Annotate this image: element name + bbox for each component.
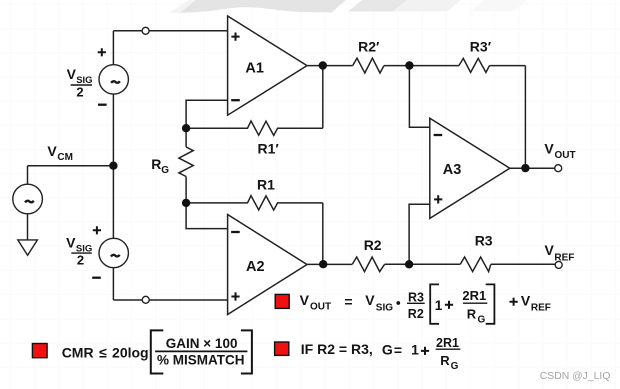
label VREF — [545, 242, 575, 263]
svg-text:2: 2 — [77, 253, 84, 268]
resistor R1' — [186, 121, 323, 135]
svg-text:2R1: 2R1 — [462, 288, 486, 303]
svg-text:CSDN @J_LIQ: CSDN @J_LIQ — [540, 371, 611, 382]
wire A3 minus input branch — [409, 66, 429, 128]
svg-text:V: V — [47, 143, 57, 159]
svg-text:V: V — [365, 292, 375, 308]
svg-text:REF: REF — [531, 303, 551, 314]
resistor R3 — [460, 257, 491, 272]
resistor R1 — [186, 196, 323, 210]
svg-text:A3: A3 — [443, 162, 462, 178]
svg-text:V: V — [67, 66, 77, 82]
wire VCM source top lead — [27, 166, 29, 185]
svg-text:CMR ≤ 20log: CMR ≤ 20log — [62, 345, 149, 361]
svg-text:IF R2 = R3,: IF R2 = R3, — [301, 341, 373, 357]
svg-text:G: G — [451, 361, 459, 372]
red marker square equation CMR — [32, 344, 47, 358]
wire source1 bottom to source2 top — [112, 94, 114, 238]
junction node A2 output — [319, 260, 327, 268]
wire A1 output to R2' — [307, 65, 353, 67]
junction node top mid — [405, 61, 413, 69]
svg-text:R2: R2 — [408, 307, 424, 321]
svg-text:1: 1 — [411, 342, 419, 358]
svg-text:R2′: R2′ — [358, 38, 380, 54]
wire R1' right leg up to A1 output — [322, 66, 324, 129]
svg-text:R: R — [467, 306, 477, 321]
open terminal VREF — [555, 261, 562, 268]
watermark blob 3 — [393, 0, 461, 12]
ground symbol — [18, 240, 38, 255]
op-amp A1 — [228, 16, 307, 115]
svg-text:% MISMATCH: % MISMATCH — [157, 353, 245, 368]
svg-text:G: G — [161, 165, 169, 176]
wire source1 top lead — [112, 31, 114, 65]
svg-text:G: G — [382, 341, 393, 357]
svg-text:R1′: R1′ — [258, 141, 280, 157]
resistor RG — [179, 147, 193, 177]
equation VOUT — [300, 284, 551, 325]
wire A3 output to VOUT terminal — [510, 167, 555, 169]
equation CMR — [62, 330, 252, 373]
junction node bottom mid — [405, 260, 413, 268]
svg-text:OUT: OUT — [310, 302, 331, 313]
wire VCM source bottom lead to ground — [27, 214, 29, 240]
minus sign at source1 — [98, 104, 107, 106]
wire RG bottom lead — [185, 177, 187, 203]
svg-text:=: = — [394, 342, 402, 358]
svg-text:2: 2 — [76, 85, 83, 100]
red marker square equation gain — [275, 342, 289, 355]
wire feedback down to VOUT node — [524, 66, 526, 169]
wire RG top lead — [185, 128, 187, 147]
minus sign A1 input — [231, 99, 240, 101]
resistor R2 — [352, 257, 384, 272]
svg-text:R: R — [151, 156, 161, 172]
op-amp A3 — [430, 118, 510, 218]
svg-text:R3′: R3′ — [470, 38, 492, 54]
wire R2 to R3 — [385, 263, 461, 265]
wire VCM horizontal — [28, 165, 114, 167]
resistor R2' — [353, 58, 384, 73]
plus sign A3 input — [434, 195, 442, 203]
svg-text:V: V — [544, 141, 554, 157]
wire bottom-left rail to A2 plus input — [113, 299, 227, 301]
junction node A1 output — [319, 61, 327, 69]
label RG — [151, 156, 169, 176]
open terminal on A2 input wire — [142, 296, 149, 303]
tilde of source VCM — [25, 201, 34, 203]
svg-text:G: G — [478, 314, 486, 325]
wire R1 right leg down to A2 output — [322, 203, 324, 264]
svg-text:1: 1 — [435, 297, 443, 313]
svg-text:A2: A2 — [246, 259, 265, 275]
junction node A (RG top) — [182, 124, 190, 132]
wire A3 plus input branch — [409, 204, 430, 264]
svg-text:V: V — [66, 235, 76, 251]
label VOUT — [544, 141, 575, 161]
op-amp A2 — [228, 215, 307, 315]
junction node VCM tap — [109, 162, 117, 170]
svg-text:A1: A1 — [245, 60, 264, 76]
junction node VOUT — [521, 164, 529, 172]
wire A1 minus input — [186, 100, 228, 128]
svg-text:V: V — [300, 292, 310, 308]
svg-text:OUT: OUT — [555, 150, 576, 161]
plus sign A2 input — [231, 292, 239, 300]
resistor R3' — [459, 58, 490, 72]
red marker square equation VOUT — [275, 294, 289, 308]
tilde of source VSIG/2 top — [111, 81, 120, 83]
watermark blob 4 — [470, 0, 527, 12]
junction node B (RG bottom) — [182, 199, 190, 207]
minus sign A3 input — [434, 134, 443, 136]
plus sign A1 input — [231, 33, 239, 41]
tilde of source VSIG/2 bottom — [111, 255, 120, 257]
label VSIG/2 bottom — [66, 235, 92, 268]
plus sign at source2 — [93, 226, 101, 234]
svg-text:R2: R2 — [364, 237, 382, 253]
svg-text:V: V — [521, 293, 531, 309]
watermark blob 1 — [179, 0, 346, 13]
svg-text:R3: R3 — [408, 291, 424, 305]
equation gain — [301, 336, 461, 372]
wire top rail from source to A1 plus input — [113, 30, 227, 32]
watermark blob 1 leading edge — [169, 0, 195, 13]
source VCM circle — [13, 184, 43, 214]
wire A2 output to R2 — [307, 263, 352, 265]
label VCM — [47, 143, 73, 163]
wire node B down to A2 minus input — [186, 203, 228, 229]
svg-text:R3: R3 — [475, 232, 493, 248]
svg-text:GAIN × 100: GAIN × 100 — [166, 336, 238, 351]
wire R2' to R3' — [384, 65, 459, 67]
minus sign at source2 — [92, 277, 101, 279]
plus sign at source1 — [98, 48, 106, 56]
svg-text:SIG: SIG — [376, 303, 393, 314]
svg-text:2R1: 2R1 — [436, 336, 459, 350]
minus sign A2 input — [231, 231, 240, 233]
source VSIG/2 bottom circle — [99, 238, 128, 267]
svg-text:R: R — [440, 353, 450, 368]
svg-text:=: = — [344, 293, 352, 309]
wire source2 bottom lead — [112, 268, 114, 300]
open terminal VOUT — [555, 165, 562, 172]
svg-text:V: V — [545, 242, 555, 258]
label VSIG/2 top — [67, 66, 93, 100]
svg-text:REF: REF — [554, 253, 574, 264]
watermark blob 2 — [348, 0, 407, 12]
svg-text:R1: R1 — [257, 177, 275, 193]
wire R3 to VREF terminal — [491, 263, 555, 265]
source VSIG/2 top circle — [99, 65, 128, 94]
wire R3' to feedback corner — [490, 65, 526, 67]
svg-text:CM: CM — [57, 152, 73, 163]
open terminal on A1 input wire — [142, 27, 149, 34]
